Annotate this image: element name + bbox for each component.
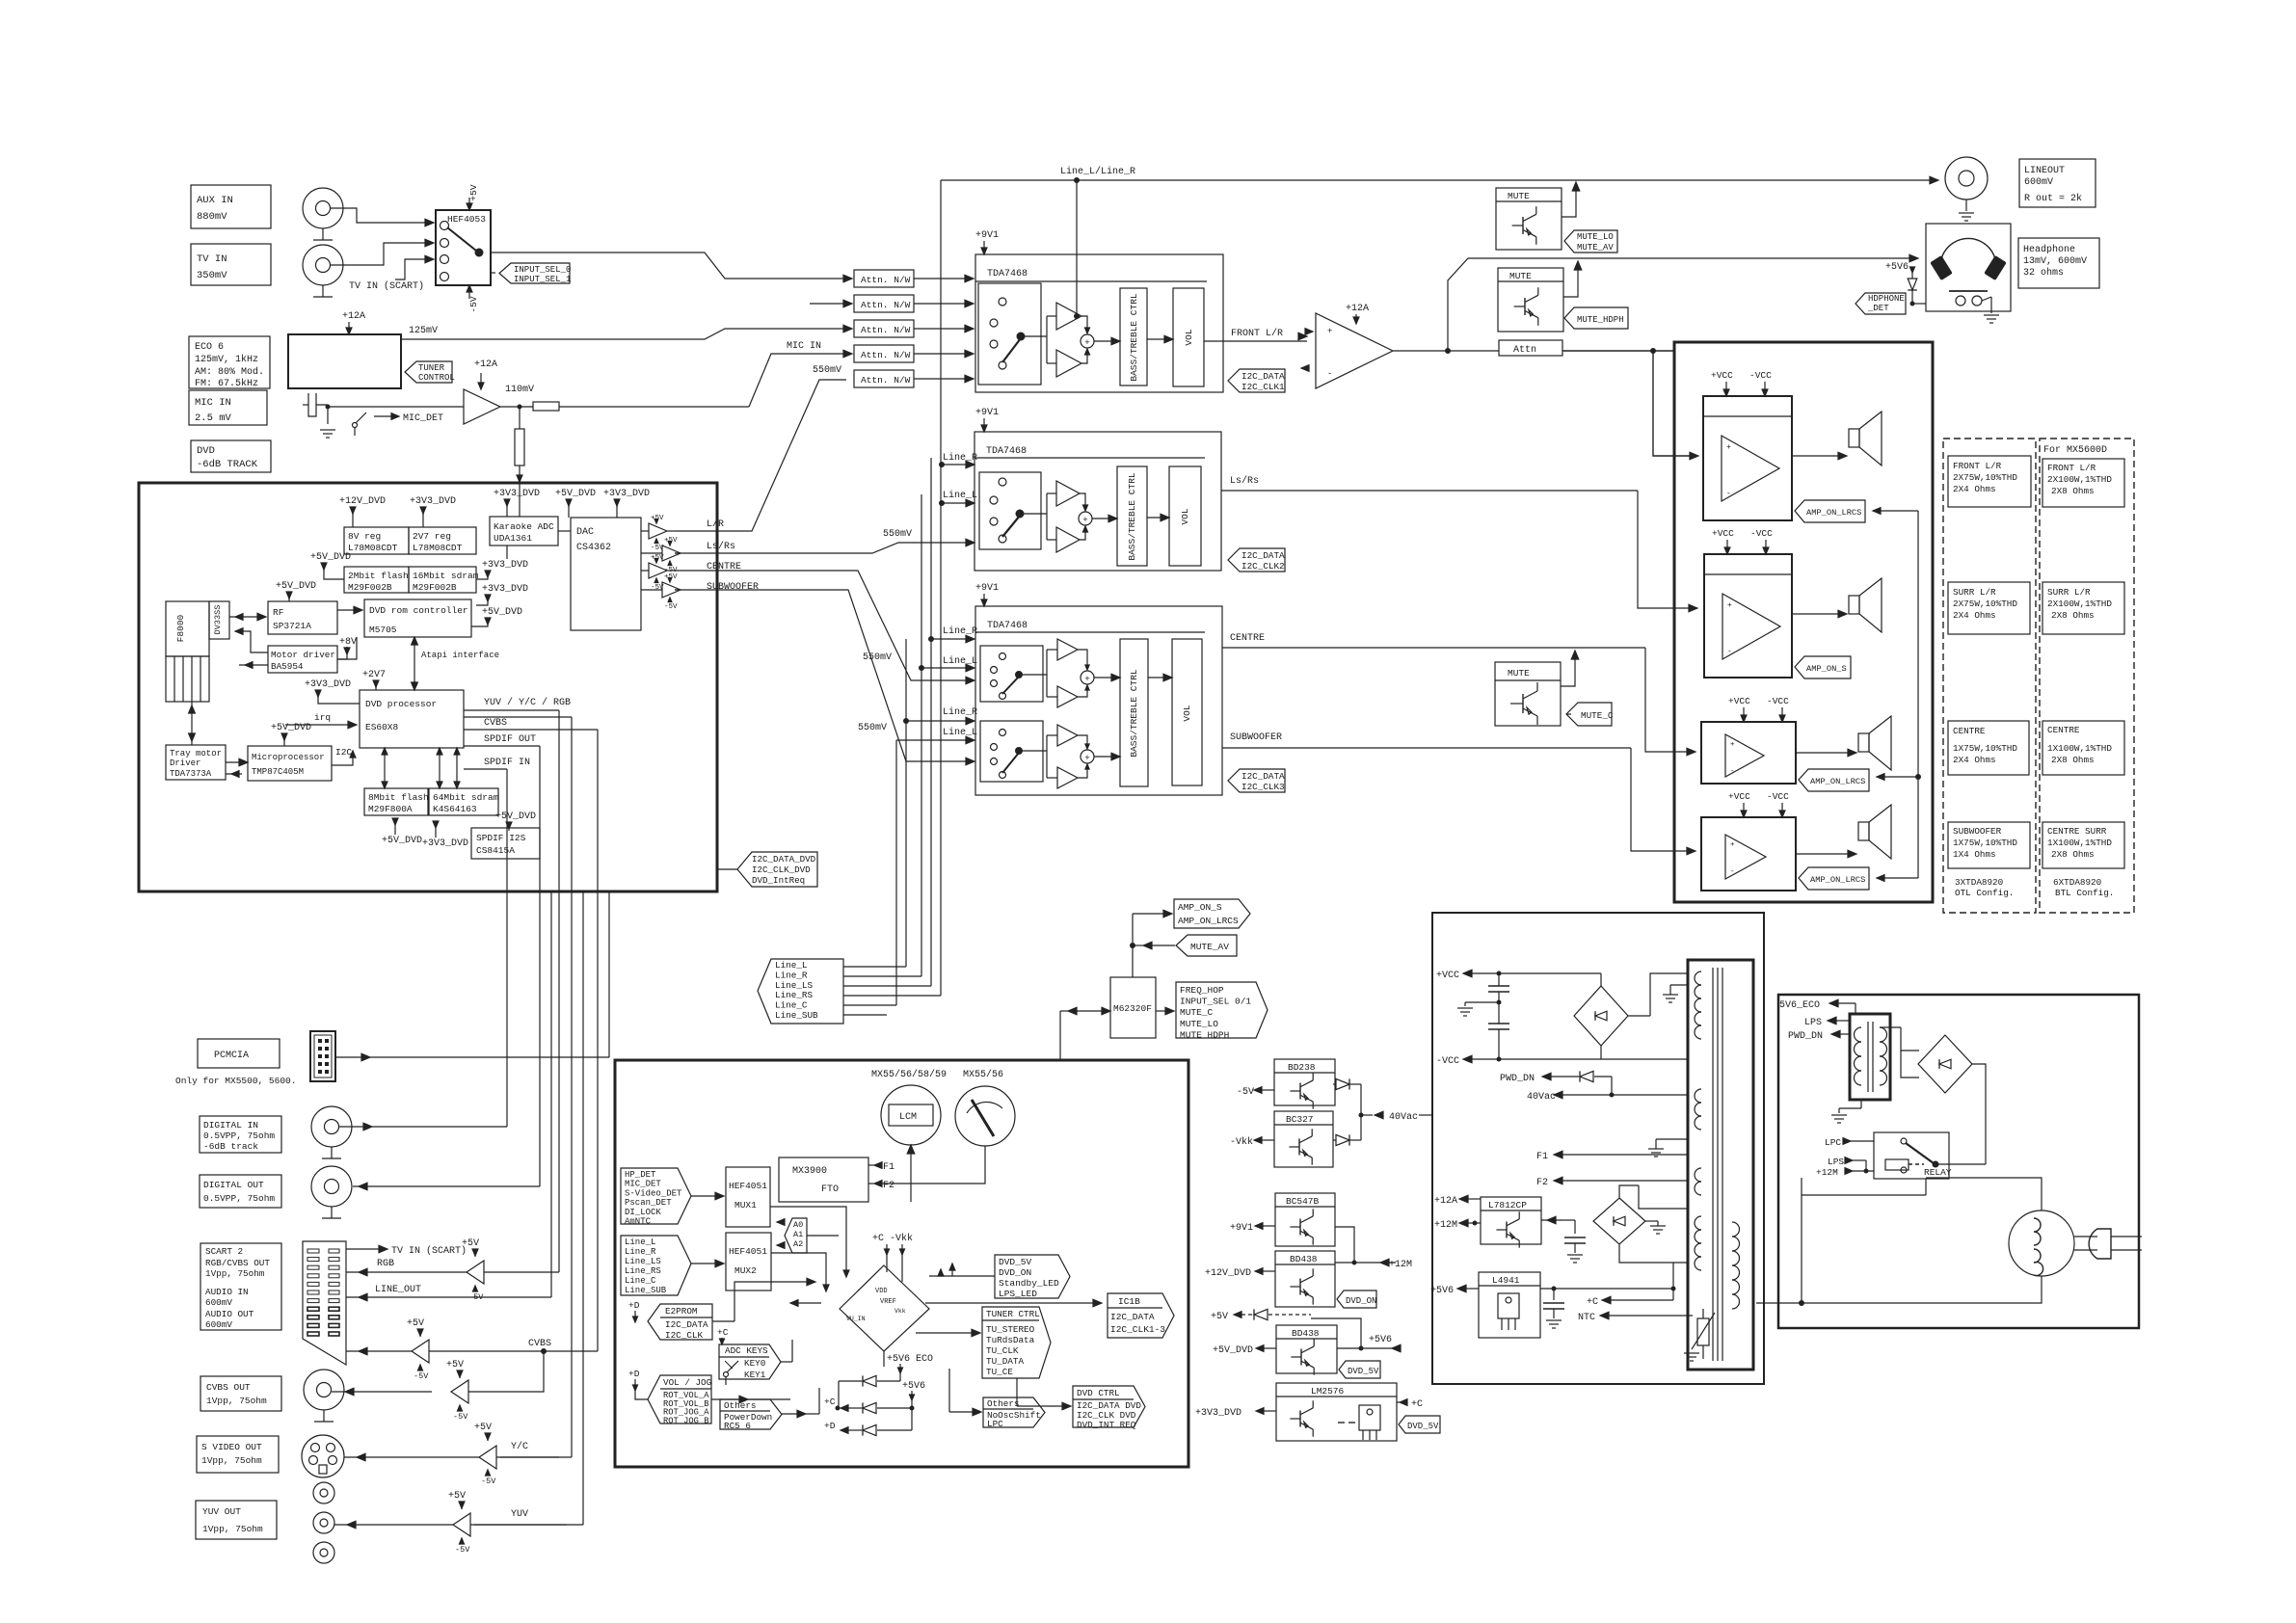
svg-text:TU_CE: TU_CE	[986, 1367, 1013, 1377]
svg-text:Attn. N/W: Attn. N/W	[861, 275, 911, 285]
svg-text:Line_LS: Line_LS	[775, 980, 813, 991]
svg-text:40Vac: 40Vac	[1389, 1112, 1418, 1123]
svg-text:SPDIF I2S: SPDIF I2S	[476, 833, 526, 843]
svg-text:+: +	[1084, 675, 1089, 684]
svg-text:MUTE: MUTE	[1508, 191, 1530, 201]
svg-text:LINEOUT: LINEOUT	[2024, 166, 2065, 176]
svg-text:MUTE_HDPH: MUTE_HDPH	[1577, 315, 1624, 325]
svg-text:MUTE_C: MUTE_C	[1180, 1007, 1214, 1018]
svg-text:Line_C: Line_C	[775, 1000, 808, 1011]
svg-text:+12A: +12A	[1346, 304, 1369, 314]
svg-text:F1: F1	[1536, 1152, 1548, 1162]
svg-text:TUNER CTRL: TUNER CTRL	[986, 1309, 1040, 1319]
svg-text:+: +	[1082, 516, 1087, 525]
svg-text:8V reg: 8V reg	[348, 531, 381, 542]
svg-text:YUV / Y/C / RGB: YUV / Y/C / RGB	[484, 697, 571, 708]
svg-text:+5V_DVD: +5V_DVD	[482, 607, 522, 618]
svg-text:FRONT L/R: FRONT L/R	[1231, 328, 1283, 339]
svg-text:M5705: M5705	[369, 625, 397, 635]
svg-text:Motor driver: Motor driver	[271, 650, 335, 660]
svg-text:ROT_JOG_B: ROT_JOG_B	[663, 1416, 709, 1425]
svg-text:Line_L/Line_R: Line_L/Line_R	[1060, 166, 1135, 177]
svg-text:+D: +D	[824, 1421, 836, 1431]
svg-text:Attn. N/W: Attn. N/W	[861, 350, 911, 360]
svg-text:TMP87C405M: TMP87C405M	[252, 767, 304, 777]
svg-text:SURR L/R: SURR L/R	[2047, 587, 2091, 598]
svg-text:0.5VPP, 75ohm: 0.5VPP, 75ohm	[203, 1131, 275, 1141]
svg-text:NTC: NTC	[1578, 1313, 1595, 1323]
svg-text:INPUT_SEL_0: INPUT_SEL_0	[514, 265, 571, 275]
svg-text:HDPHONE: HDPHONE	[1868, 294, 1905, 304]
svg-text:2X8 Ohms: 2X8 Ohms	[2051, 486, 2095, 496]
svg-text:+3V3_DVD: +3V3_DVD	[422, 838, 468, 849]
svg-text:+VCC: +VCC	[1711, 370, 1733, 381]
svg-text:A0: A0	[793, 1220, 803, 1230]
svg-text:+12M: +12M	[1389, 1260, 1412, 1270]
svg-text:-VCC: -VCC	[1750, 528, 1773, 539]
svg-text:YUV OUT: YUV OUT	[202, 1506, 241, 1517]
svg-text:IC1B: IC1B	[1118, 1296, 1140, 1307]
svg-text:600mV: 600mV	[205, 1319, 232, 1330]
svg-text:SP3721A: SP3721A	[273, 621, 311, 631]
svg-text:DIGITAL OUT: DIGITAL OUT	[203, 1180, 264, 1190]
svg-text:I2C_DATA: I2C_DATA	[665, 1319, 708, 1330]
svg-text:CENTRE: CENTRE	[1230, 633, 1265, 644]
svg-text:+C: +C	[1411, 1399, 1423, 1410]
svg-text:+5V: +5V	[462, 1238, 479, 1249]
svg-text:+C: +C	[717, 1327, 729, 1338]
svg-text:Line_L: Line_L	[943, 727, 977, 738]
svg-text:Y/C: Y/C	[511, 1441, 528, 1452]
svg-text:MUTE: MUTE	[1509, 271, 1532, 281]
svg-text:+5V6 ECO: +5V6 ECO	[887, 1354, 933, 1365]
svg-text:2X8 Ohms: 2X8 Ohms	[2051, 755, 2095, 765]
svg-text:SUBWOOFER: SUBWOOFER	[707, 582, 759, 593]
svg-text:Line_R: Line_R	[943, 452, 977, 464]
svg-text:600mV: 600mV	[2024, 177, 2053, 188]
svg-text:-: -	[1327, 369, 1332, 379]
svg-text:2X4 Ohms: 2X4 Ohms	[1953, 610, 1996, 621]
svg-text:BC327: BC327	[1286, 1114, 1314, 1125]
svg-text:2Mbit flash: 2Mbit flash	[348, 571, 409, 581]
svg-text:MUTE_C: MUTE_C	[1581, 710, 1614, 721]
svg-text:M29F002B: M29F002B	[413, 582, 457, 593]
svg-text:FRONT L/R: FRONT L/R	[1953, 461, 2002, 471]
svg-text:YUV: YUV	[511, 1509, 528, 1520]
svg-text:I2C_CLK1-3: I2C_CLK1-3	[1110, 1324, 1165, 1335]
svg-text:-VCC: -VCC	[1767, 791, 1789, 802]
svg-text:DVD_ON: DVD_ON	[1346, 1296, 1376, 1306]
svg-text:+3V3_DVD: +3V3_DVD	[482, 584, 528, 595]
svg-text:TV IN (SCART): TV IN (SCART)	[391, 1245, 467, 1257]
svg-text:AMP_ON_LRCS: AMP_ON_LRCS	[1806, 508, 1861, 518]
svg-text:+5V: +5V	[407, 1318, 424, 1329]
svg-text:-: -	[1726, 490, 1731, 498]
svg-text:+: +	[1730, 741, 1735, 749]
svg-text:-: -	[1730, 768, 1735, 776]
svg-text:RGB: RGB	[377, 1259, 394, 1269]
svg-text:Others: Others	[724, 1400, 756, 1411]
svg-text:+12V_DVD: +12V_DVD	[1205, 1268, 1251, 1279]
svg-text:2X8 Ohms: 2X8 Ohms	[2051, 610, 2095, 621]
svg-text:VOL / JOG: VOL / JOG	[663, 1377, 711, 1388]
svg-text:AUDIO OUT: AUDIO OUT	[205, 1309, 254, 1319]
svg-text:BASS/TREBLE CTRL: BASS/TREBLE CTRL	[1127, 472, 1137, 561]
svg-text:RGB/CVBS OUT: RGB/CVBS OUT	[205, 1258, 270, 1268]
svg-text:Line_L: Line_L	[625, 1237, 655, 1247]
svg-text:Line_SUB: Line_SUB	[625, 1286, 667, 1295]
svg-text:MUTE_AV: MUTE_AV	[1190, 942, 1229, 952]
svg-text:MUTE_LO: MUTE_LO	[1180, 1019, 1218, 1029]
svg-text:32 ohms: 32 ohms	[2023, 267, 2064, 279]
svg-text:CENTRE SURR: CENTRE SURR	[2047, 826, 2107, 837]
svg-text:Line_SUB: Line_SUB	[775, 1010, 818, 1021]
svg-text:Others: Others	[987, 1398, 1019, 1409]
svg-text:AUDIO IN: AUDIO IN	[205, 1287, 249, 1297]
svg-text:+9V1: +9V1	[1230, 1223, 1253, 1234]
svg-text:Headphone: Headphone	[2023, 244, 2075, 255]
svg-text:+5V6: +5V6	[1885, 262, 1909, 273]
svg-text:SPDIF IN: SPDIF IN	[484, 758, 530, 768]
svg-text:MIC_DET: MIC_DET	[403, 413, 443, 424]
svg-text:Only for MX5500, 5600.: Only for MX5500, 5600.	[175, 1076, 296, 1086]
svg-text:MUX1: MUX1	[734, 1200, 757, 1211]
svg-text:Line_R: Line_R	[775, 970, 808, 980]
svg-text:Atapi interface: Atapi interface	[421, 651, 499, 660]
svg-text:I2C_CLK: I2C_CLK	[665, 1330, 703, 1341]
svg-text:DAC: DAC	[576, 527, 594, 538]
svg-text:DVD_ON: DVD_ON	[999, 1267, 1031, 1278]
svg-text:CONTROL: CONTROL	[418, 373, 455, 383]
svg-text:+VCC: +VCC	[1712, 528, 1734, 539]
svg-text:40Vac: 40Vac	[1527, 1092, 1556, 1103]
svg-text:+3V3_DVD: +3V3_DVD	[1195, 1408, 1241, 1419]
svg-text:DVD processor: DVD processor	[365, 699, 437, 709]
svg-text:CVBS: CVBS	[484, 718, 507, 729]
svg-text:SCART 2: SCART 2	[205, 1246, 243, 1257]
svg-text:KEY1: KEY1	[744, 1370, 766, 1380]
svg-text:L78M08CDT: L78M08CDT	[413, 543, 463, 553]
svg-text:Attn. N/W: Attn. N/W	[861, 300, 911, 310]
svg-text:For MX5600D: For MX5600D	[2043, 445, 2107, 456]
svg-text:AUX IN: AUX IN	[197, 195, 233, 206]
svg-text:CVBS OUT: CVBS OUT	[206, 1382, 251, 1393]
svg-text:M29F002B: M29F002B	[348, 582, 392, 593]
svg-text:AM: 80% Mod.: AM: 80% Mod.	[195, 366, 264, 378]
svg-text:1X100W,1%THD: 1X100W,1%THD	[2047, 838, 2112, 848]
svg-text:S-Video_DET: S-Video_DET	[625, 1188, 682, 1198]
svg-text:+12A: +12A	[342, 311, 365, 322]
svg-text:+2V7: +2V7	[362, 670, 386, 680]
svg-text:-5V: -5V	[1237, 1087, 1254, 1098]
svg-text:+5V: +5V	[474, 1423, 492, 1433]
svg-text:INPUT_SEL 0/1: INPUT_SEL 0/1	[1180, 997, 1251, 1007]
svg-text:L78M08CDT: L78M08CDT	[348, 543, 398, 553]
svg-text:INPUT_SEL_1: INPUT_SEL_1	[514, 275, 571, 284]
svg-text:DV33SS: DV33SS	[213, 605, 223, 635]
svg-text:1X100W,1%THD: 1X100W,1%THD	[2047, 743, 2112, 754]
svg-text:1Vpp, 75ohm: 1Vpp, 75ohm	[202, 1524, 263, 1534]
svg-text:DI_LOCK: DI_LOCK	[625, 1208, 661, 1217]
svg-text:MX3900: MX3900	[792, 1166, 827, 1177]
svg-text:+5V: +5V	[468, 184, 479, 200]
svg-text:BD438: BD438	[1290, 1254, 1318, 1264]
svg-text:+5V_DVD: +5V_DVD	[555, 489, 596, 499]
svg-text:L/R: L/R	[707, 519, 724, 530]
svg-text:TuRdsData: TuRdsData	[986, 1335, 1035, 1345]
svg-text:HEF4053: HEF4053	[447, 214, 486, 225]
svg-text:+5V_DVD: +5V_DVD	[495, 811, 536, 822]
svg-text:DVD_5V: DVD_5V	[1407, 1422, 1439, 1431]
svg-text:CS8415A: CS8415A	[476, 845, 515, 856]
svg-text:BASS/TREBLE CTRL: BASS/TREBLE CTRL	[1129, 293, 1139, 382]
svg-text:+5V_DVD: +5V_DVD	[276, 581, 316, 592]
svg-text:2X4 Ohms: 2X4 Ohms	[1953, 755, 1996, 765]
svg-text:HEF4051: HEF4051	[729, 1181, 767, 1191]
svg-text:LPC: LPC	[1825, 1137, 1841, 1148]
svg-text:TV IN: TV IN	[197, 253, 227, 265]
svg-text:+5V: +5V	[448, 1491, 466, 1502]
svg-text:DVD_IntReq: DVD_IntReq	[752, 875, 805, 886]
svg-text:CS4362: CS4362	[576, 543, 611, 553]
svg-text:Tray motor: Tray motor	[170, 749, 222, 758]
svg-text:125mV: 125mV	[409, 326, 438, 336]
svg-text:+12A: +12A	[1434, 1196, 1457, 1207]
svg-text:2X100W,1%THD: 2X100W,1%THD	[2047, 474, 2112, 485]
svg-text:ES60X8: ES60X8	[365, 722, 399, 732]
svg-text:TDA7468: TDA7468	[986, 446, 1027, 457]
svg-text:I2C_CLK3: I2C_CLK3	[1241, 782, 1285, 792]
svg-text:A1: A1	[793, 1230, 803, 1239]
svg-text:I2C_DATA: I2C_DATA	[1241, 371, 1285, 382]
svg-text:MIC IN: MIC IN	[195, 397, 231, 409]
svg-text:-6dB TRACK: -6dB TRACK	[197, 459, 258, 470]
svg-text:1Vpp, 75ohm: 1Vpp, 75ohm	[201, 1455, 262, 1466]
svg-text:HEF4051: HEF4051	[729, 1246, 767, 1257]
svg-text:+: +	[1084, 754, 1089, 763]
svg-text:VOL: VOL	[1184, 329, 1194, 345]
svg-text:+9V1: +9V1	[975, 408, 999, 418]
svg-text:I2C_DATA_DVD: I2C_DATA_DVD	[752, 854, 816, 865]
svg-text:-5V: -5V	[455, 1545, 470, 1555]
svg-text:MUX2: MUX2	[734, 1265, 757, 1276]
svg-text:Ls/Rs: Ls/Rs	[707, 541, 735, 552]
svg-text:+5V: +5V	[1211, 1312, 1228, 1322]
svg-text:+VCC: +VCC	[1436, 971, 1459, 981]
svg-text:OTL Config.: OTL Config.	[1955, 888, 2014, 898]
svg-text:+12M: +12M	[1816, 1167, 1838, 1178]
svg-text:600mV: 600mV	[205, 1297, 232, 1308]
svg-text:AmNTC: AmNTC	[625, 1217, 652, 1227]
svg-text:2X8 Ohms: 2X8 Ohms	[2051, 849, 2095, 860]
svg-text:A2: A2	[793, 1239, 803, 1249]
svg-text:R out = 2k: R out = 2k	[2024, 193, 2082, 204]
svg-text:1X75W,10%THD: 1X75W,10%THD	[1953, 838, 2017, 848]
svg-text:Line_C: Line_C	[625, 1276, 656, 1286]
svg-text:-5V: -5V	[468, 296, 479, 312]
svg-text:+5V6: +5V6	[902, 1381, 925, 1392]
svg-text:I2C_CLK1: I2C_CLK1	[1241, 382, 1285, 392]
svg-text:TDA7373A: TDA7373A	[170, 769, 212, 779]
svg-text:+3V3_DVD: +3V3_DVD	[603, 489, 650, 499]
svg-text:MUTE_AV: MUTE_AV	[1577, 243, 1614, 253]
svg-text:+C: +C	[824, 1397, 836, 1407]
svg-text:_DET: _DET	[1867, 304, 1889, 313]
svg-text:-Vkk: -Vkk	[1230, 1136, 1253, 1148]
svg-text:HP_DET: HP_DET	[625, 1170, 656, 1180]
svg-text:TU_DATA: TU_DATA	[986, 1356, 1024, 1367]
svg-text:+5V_DVD: +5V_DVD	[310, 552, 351, 563]
svg-text:SUBWOOFER: SUBWOOFER	[1230, 732, 1282, 743]
svg-text:+: +	[1084, 338, 1089, 348]
svg-text:1X75W,10%THD: 1X75W,10%THD	[1953, 743, 2017, 754]
svg-text:Microprocessor: Microprocessor	[252, 753, 325, 762]
svg-text:BC547B: BC547B	[1286, 1196, 1320, 1207]
svg-text:TU_CLK: TU_CLK	[986, 1345, 1019, 1356]
svg-text:Line_L: Line_L	[775, 960, 807, 971]
svg-text:-VCC: -VCC	[1749, 370, 1772, 381]
svg-text:MUTE_HDPH: MUTE_HDPH	[1180, 1029, 1229, 1040]
svg-text:M62320F: M62320F	[1113, 1003, 1152, 1014]
svg-text:+3V3_DVD: +3V3_DVD	[494, 489, 540, 499]
svg-text:+5V_DVD: +5V_DVD	[1213, 1345, 1253, 1356]
svg-text:-5V: -5V	[414, 1371, 429, 1381]
svg-text:550mV: 550mV	[858, 723, 887, 733]
svg-text:LCM: LCM	[899, 1112, 917, 1123]
svg-text:Line_RS: Line_RS	[775, 990, 813, 1000]
svg-text:BD238: BD238	[1288, 1062, 1316, 1073]
svg-text:-: -	[1727, 648, 1732, 656]
svg-text:I2C_CLK2: I2C_CLK2	[1241, 561, 1285, 572]
svg-text:-5V: -5V	[664, 603, 678, 611]
svg-text:BTL Config.: BTL Config.	[2055, 888, 2114, 898]
svg-text:TDA7468: TDA7468	[987, 621, 1028, 631]
svg-text:AMP_ON_S: AMP_ON_S	[1178, 902, 1222, 913]
svg-text:-: -	[1730, 868, 1735, 876]
svg-text:Attn. N/W: Attn. N/W	[861, 375, 911, 386]
svg-text:MUTE: MUTE	[1508, 668, 1530, 678]
svg-text:0.5VPP, 75ohm: 0.5VPP, 75ohm	[203, 1193, 275, 1204]
svg-text:-6dB track: -6dB track	[203, 1141, 258, 1152]
svg-text:+VCC: +VCC	[1728, 696, 1750, 706]
svg-text:880mV: 880mV	[197, 211, 227, 223]
svg-text:TUNER: TUNER	[418, 363, 445, 373]
svg-text:Line_R: Line_R	[943, 706, 977, 718]
svg-text:VREF: VREF	[880, 1298, 896, 1306]
svg-text:Line_L: Line_L	[943, 655, 977, 667]
svg-text:BD438: BD438	[1292, 1328, 1320, 1339]
svg-text:+D: +D	[628, 1300, 640, 1311]
svg-text:FREQ_HOP: FREQ_HOP	[1180, 985, 1224, 996]
svg-text:13mV, 600mV: 13mV, 600mV	[2023, 256, 2087, 267]
svg-text:+8V: +8V	[339, 637, 357, 648]
svg-text:+: +	[1726, 443, 1731, 452]
svg-text:L7812CP: L7812CP	[1488, 1200, 1527, 1211]
svg-text:+D: +D	[628, 1369, 640, 1379]
svg-text:DVD_5V: DVD_5V	[999, 1257, 1032, 1267]
svg-text:Pscan_DET: Pscan_DET	[625, 1198, 672, 1208]
svg-text:DVD CTRL: DVD CTRL	[1077, 1388, 1120, 1398]
svg-text:550mV: 550mV	[863, 652, 892, 663]
svg-text:MIC_DET: MIC_DET	[625, 1180, 661, 1189]
svg-text:+: +	[1730, 841, 1735, 849]
svg-text:PWD_DN: PWD_DN	[1500, 1074, 1535, 1084]
svg-text:+9V1: +9V1	[975, 230, 999, 241]
svg-text:F8000: F8000	[175, 614, 186, 642]
svg-text:TU_STEREO: TU_STEREO	[986, 1324, 1035, 1335]
svg-text:Standby_LED: Standby_LED	[999, 1278, 1059, 1289]
svg-text:2X75W,10%THD: 2X75W,10%THD	[1953, 472, 2017, 483]
svg-text:Ls/Rs: Ls/Rs	[1230, 475, 1259, 487]
svg-text:E2PROM: E2PROM	[665, 1306, 697, 1317]
svg-text:LPC: LPC	[987, 1419, 1003, 1429]
svg-text:VOL: VOL	[1180, 508, 1190, 524]
svg-text:F2: F2	[1536, 1178, 1548, 1188]
svg-text:350mV: 350mV	[197, 270, 227, 281]
svg-text:F2: F2	[883, 1181, 894, 1191]
svg-text:PCMCIA: PCMCIA	[214, 1051, 249, 1061]
svg-text:CENTRE: CENTRE	[707, 562, 741, 572]
svg-text:+5V6: +5V6	[1369, 1335, 1392, 1345]
svg-text:LPS: LPS	[1804, 1018, 1822, 1028]
svg-text:M29F800A: M29F800A	[368, 804, 413, 814]
svg-text:+9V1: +9V1	[975, 583, 999, 594]
svg-text:DVD_5V: DVD_5V	[1348, 1367, 1379, 1376]
svg-text:Driver: Driver	[170, 758, 200, 768]
svg-text:KEY0: KEY0	[744, 1358, 765, 1369]
svg-text:5V6_ECO: 5V6_ECO	[1779, 1000, 1820, 1011]
svg-text:-5V: -5V	[481, 1477, 496, 1486]
svg-text:SUBWOOFER: SUBWOOFER	[1953, 826, 2002, 837]
svg-text:MIC IN: MIC IN	[787, 341, 821, 352]
svg-text:K4S64163: K4S64163	[433, 804, 477, 814]
svg-text:CVBS: CVBS	[528, 1339, 551, 1349]
svg-text:550mV: 550mV	[813, 365, 841, 376]
svg-text:F1: F1	[883, 1162, 894, 1173]
svg-text:TV IN (SCART): TV IN (SCART)	[349, 280, 424, 292]
svg-text:MX55/56: MX55/56	[963, 1069, 1003, 1080]
svg-text:Line_LS: Line_LS	[625, 1257, 661, 1266]
svg-text:+3V3_DVD: +3V3_DVD	[305, 679, 351, 690]
svg-text:16Mbit sdram: 16Mbit sdram	[413, 571, 479, 581]
svg-text:VDD: VDD	[875, 1288, 888, 1295]
svg-text:-VCC: -VCC	[1436, 1056, 1459, 1067]
svg-text:MUTE_LO: MUTE_LO	[1577, 232, 1614, 242]
svg-text:DVD_INT REQ: DVD_INT REQ	[1077, 1420, 1136, 1430]
svg-text:110mV: 110mV	[505, 385, 534, 395]
svg-text:+12A: +12A	[474, 359, 497, 370]
svg-text:Karaoke ADC: Karaoke ADC	[494, 521, 554, 532]
svg-text:Vkk: Vkk	[894, 1308, 906, 1315]
svg-text:AMP_ON_LRCS: AMP_ON_LRCS	[1810, 777, 1865, 786]
svg-text:+5V_DVD: +5V_DVD	[382, 836, 422, 846]
svg-text:SURR L/R: SURR L/R	[1953, 587, 1996, 598]
svg-text:Line_L: Line_L	[943, 490, 977, 501]
svg-text:+C -Vkk: +C -Vkk	[872, 1233, 913, 1244]
svg-text:LINE_OUT: LINE_OUT	[375, 1285, 421, 1295]
svg-text:Attn: Attn	[1513, 345, 1536, 356]
svg-text:125mV, 1kHz: 125mV, 1kHz	[195, 354, 258, 365]
svg-text:-5V: -5V	[453, 1412, 468, 1422]
svg-text:2X100W,1%THD: 2X100W,1%THD	[2047, 599, 2112, 609]
svg-text:BA5954: BA5954	[271, 661, 304, 672]
svg-text:ECO 6: ECO 6	[195, 342, 224, 353]
svg-text:2.5 mV: 2.5 mV	[195, 412, 232, 424]
svg-text:8Mbit flash: 8Mbit flash	[368, 792, 429, 803]
svg-text:CENTRE: CENTRE	[2047, 725, 2080, 735]
svg-text:RC5_6: RC5_6	[724, 1421, 751, 1431]
svg-text:Line_RS: Line_RS	[625, 1266, 661, 1276]
